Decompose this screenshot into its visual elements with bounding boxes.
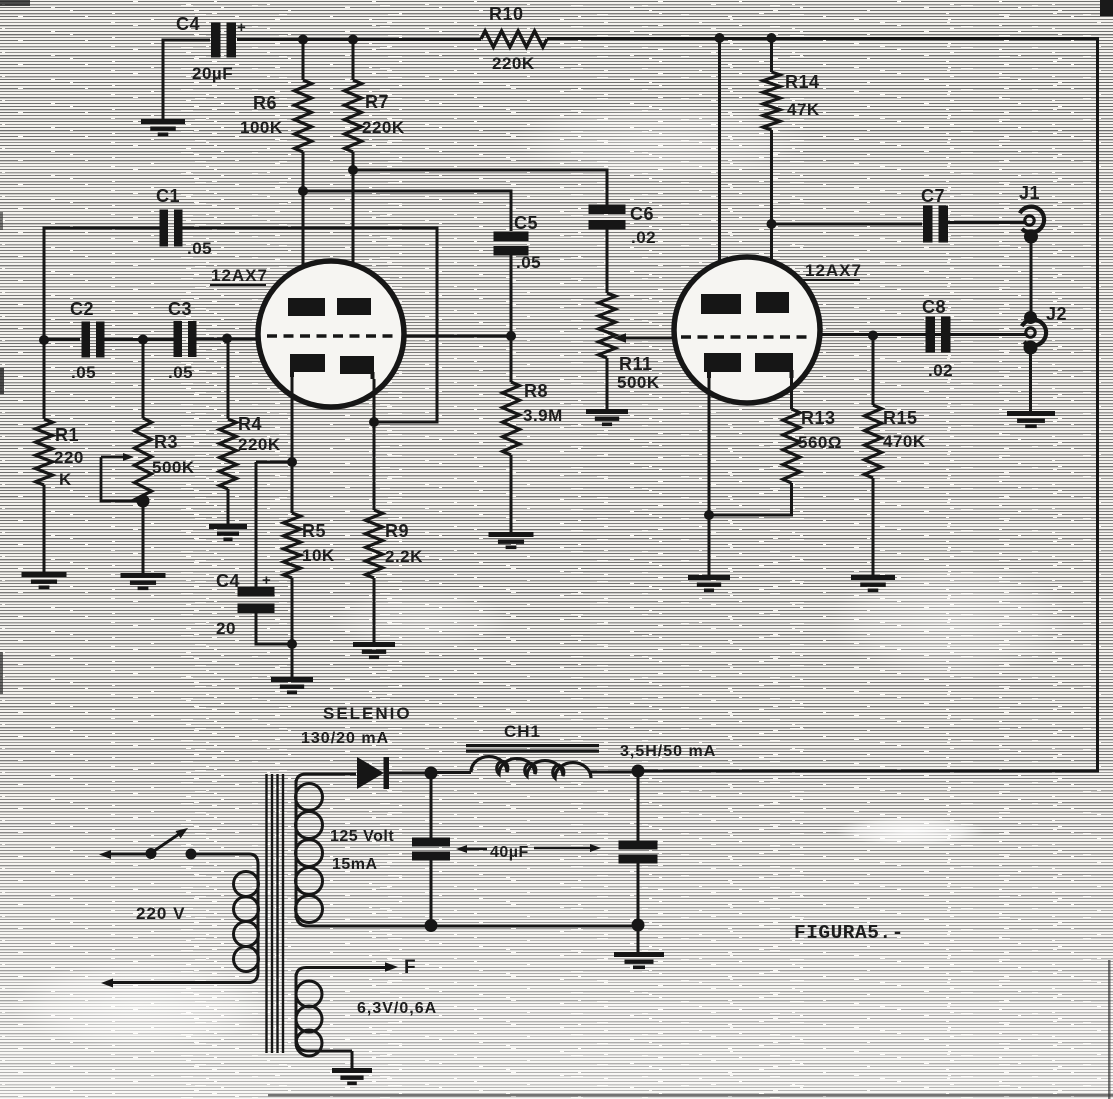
svg-text:220K: 220K: [362, 118, 405, 137]
wire: plate branch to C6: [353, 170, 607, 206]
ground (power supply): [614, 952, 664, 969]
svg-text:J2: J2: [1046, 304, 1067, 324]
ground (R5): [271, 677, 313, 694]
svg-text:470K: 470K: [883, 432, 926, 451]
svg-text:500K: 500K: [152, 458, 195, 477]
capacitor C5 .05: [494, 213, 542, 272]
wire: bus to V2 plate (pin 1): [718, 38, 721, 295]
label SELENIO 130/20mA: [301, 704, 412, 747]
svg-text:R9: R9: [385, 521, 409, 541]
wire: D1 to choke: [431, 771, 471, 774]
V1 cathode (triode B): [340, 356, 374, 379]
wire: J2 to ground: [1029, 351, 1032, 411]
svg-text:.05: .05: [168, 363, 193, 382]
V2 plate (triode B): [756, 292, 789, 313]
svg-text:6,3V/0,6A: 6,3V/0,6A: [357, 1000, 437, 1017]
svg-text:.05: .05: [187, 239, 212, 258]
svg-text:40µF: 40µF: [490, 844, 529, 861]
V2 grid (dashed): [681, 335, 813, 338]
transformer HV secondary 125V: [296, 774, 357, 926]
svg-text:100K: 100K: [240, 118, 283, 137]
svg-text:R8: R8: [524, 381, 548, 401]
svg-text:47K: 47K: [787, 100, 820, 119]
ground (R3): [121, 573, 166, 590]
svg-text:FIGURA5.-: FIGURA5.-: [794, 922, 904, 944]
label CH1: [504, 722, 541, 741]
wire: C10 to ground: [637, 925, 640, 953]
svg-text:.02: .02: [928, 361, 953, 380]
wire: C4 to ground: [163, 40, 210, 119]
svg-text:R11: R11: [619, 354, 653, 374]
transformer T1 core: [267, 774, 284, 1053]
svg-text:2.2K: 2.2K: [385, 547, 423, 566]
resistor R9 2.2K: [366, 510, 424, 642]
arrow: mains line 2: [101, 979, 113, 988]
ground (V2 cathode): [688, 575, 730, 592]
wire: V2 plate to C7: [772, 223, 923, 226]
svg-text:C2: C2: [70, 299, 94, 319]
node: bus/V2 plate junction: [715, 33, 725, 43]
switch S1 (mains): [99, 828, 197, 860]
wire: C4b bottom to R5 bottom: [256, 609, 292, 644]
wire: V1 grid B out to C5/R8 node: [404, 335, 513, 338]
ground (C4): [141, 119, 185, 136]
svg-text:C3: C3: [168, 299, 192, 319]
node: R6/C5 branch: [298, 186, 308, 196]
ground (filament): [332, 1068, 372, 1085]
node: bus/R6 junction: [298, 35, 308, 45]
resistor R1 220K: [36, 340, 84, 572]
svg-text:.05: .05: [516, 253, 541, 272]
ground (R11): [586, 409, 628, 426]
svg-text:500K: 500K: [617, 373, 660, 392]
resistor R14 47K: [763, 38, 820, 130]
svg-text:3.9M: 3.9M: [523, 406, 563, 425]
svg-text:SELENIO: SELENIO: [323, 704, 412, 723]
svg-text:R1: R1: [55, 425, 79, 445]
resistor R6 100K: [240, 39, 312, 152]
svg-text:R6: R6: [253, 93, 277, 113]
svg-text:C8: C8: [922, 297, 946, 317]
label 125Volt 15mA: [330, 828, 394, 873]
wire: filament to ground: [351, 1051, 354, 1068]
node: C10 bottom junction: [632, 919, 645, 932]
svg-text:C1: C1: [156, 186, 180, 206]
wire: C4b top riser: [256, 462, 292, 588]
resistor R7 220K: [345, 39, 405, 152]
V1 cathode (triode A): [290, 354, 325, 377]
V1 grid (dashed): [267, 334, 397, 337]
transformer primary winding: [108, 854, 259, 983]
svg-text:R14: R14: [785, 72, 820, 92]
resistor R13 560: [709, 378, 842, 515]
capacitor C9 40uF input filter: [412, 773, 450, 926]
caption FIGURA 5: [794, 922, 904, 944]
V1 plate (triode B): [337, 298, 371, 315]
wire: B+ top bus (left of R10): [237, 38, 481, 41]
wire: V2 out to C8: [819, 333, 1026, 336]
label 3,5H/50mA: [620, 743, 716, 760]
resistor R15 470K: [865, 336, 926, 576]
capacitor C7: [921, 186, 948, 243]
node: bus/R14 junction: [767, 33, 777, 43]
wire: plate branch to C5: [303, 191, 511, 231]
svg-text:+: +: [262, 572, 271, 589]
V1 plate (triode A): [288, 298, 325, 316]
svg-text:220: 220: [54, 448, 84, 467]
ground (J2): [1007, 411, 1055, 428]
node: C5/R8/grid junction: [506, 331, 516, 341]
capacitor C3 .05: [168, 299, 197, 382]
node: R5/C4b bottom junction: [287, 639, 297, 649]
wire: V1 cathode B down to R9: [373, 379, 376, 510]
svg-text:C4: C4: [216, 571, 240, 591]
ground (R8): [489, 532, 534, 549]
svg-text:125 Volt: 125 Volt: [330, 828, 394, 845]
wire: V2 cathode A to ground: [708, 378, 711, 575]
transformer filament winding 6.3V: [296, 968, 390, 1057]
node: R15 junction: [868, 331, 878, 341]
svg-text:12AX7: 12AX7: [805, 261, 862, 280]
svg-text:15mA: 15mA: [332, 856, 378, 873]
svg-text:3,5H/50 mA: 3,5H/50 mA: [620, 743, 716, 760]
wire: R7 to V1 plate (pin 6): [352, 152, 355, 299]
svg-text:C5: C5: [514, 213, 538, 233]
capacitor C2 .05 (input): [70, 299, 105, 382]
svg-text:.05: .05: [71, 363, 96, 382]
svg-text:R7: R7: [365, 92, 389, 112]
ground (R1): [22, 572, 67, 589]
wire: C1 right to V2 cathode node: [180, 228, 437, 422]
svg-text:+: +: [237, 19, 246, 36]
label 40uF with arrows: [456, 844, 601, 861]
svg-text:R5: R5: [302, 521, 326, 541]
wire: B+ top bus (right of R10) down right edge to power supply: [547, 39, 1098, 772]
node: choke out/C10 junction: [632, 765, 645, 778]
svg-text:R15: R15: [883, 408, 918, 428]
wiper arrow: V2 grid to R11: [613, 333, 673, 343]
svg-text:12AX7: 12AX7: [211, 266, 268, 285]
capacitor C4b 20uF cathode bypass: [216, 571, 275, 638]
capacitor C8 .02: [922, 297, 953, 380]
V2 cathode (triode B): [755, 353, 793, 378]
resistor R5 10K: [284, 513, 335, 677]
resistor R4 220K: [220, 339, 281, 525]
wire: input node to C2: [44, 338, 80, 341]
node: R3 wiper tie: [137, 495, 150, 508]
label 220V: [136, 904, 185, 923]
svg-text:220 V: 220 V: [136, 904, 185, 923]
resistor R11 500K volume pot: [599, 293, 660, 409]
node: cathode A / C4b junction: [287, 457, 297, 467]
wire: C3 to V1 grid: [194, 338, 263, 341]
svg-text:C4: C4: [176, 14, 200, 34]
node: input node (C1/C2/R1): [39, 335, 49, 345]
jack J2 (output): [1022, 304, 1067, 355]
svg-text:220K: 220K: [238, 435, 281, 454]
wire: V1 cathode A down: [291, 377, 294, 513]
wire: C7 to J1: [947, 221, 1026, 224]
tube V1 12AX7 envelope: [210, 261, 404, 407]
svg-text:R3: R3: [154, 432, 178, 452]
wire: C2 to C3: [102, 338, 176, 341]
svg-text:F: F: [404, 957, 416, 978]
svg-text:C7: C7: [921, 186, 945, 206]
wire: R14 to V2 plate (pin 6): [770, 130, 773, 293]
choke CH1: [466, 744, 638, 778]
resistor R8 3.9M: [503, 336, 563, 532]
svg-text:R13: R13: [801, 408, 836, 428]
jack J1 (output): [1019, 183, 1044, 244]
ground (R4): [209, 524, 247, 541]
svg-text:R4: R4: [238, 414, 262, 434]
node: R14/C7 junction: [767, 219, 777, 229]
node: C2/C3/R3 junction: [138, 335, 148, 345]
wiper arm of R3: [101, 453, 143, 501]
ground (R9): [353, 642, 395, 659]
wire: J1 to J2: [1030, 240, 1033, 315]
V2 plate (triode A): [701, 294, 741, 314]
svg-text:20µF: 20µF: [192, 64, 233, 83]
node: C9 bottom junction: [425, 919, 438, 932]
resistor R10 220K: [481, 4, 547, 73]
node: bus/R7 junction: [348, 35, 358, 45]
svg-text:220K: 220K: [492, 54, 535, 73]
rectifier D1 selenium: [357, 757, 431, 789]
svg-text:20: 20: [216, 619, 236, 638]
capacitor C4 (20uF decoupling): [176, 14, 246, 83]
V2 cathode (triode A): [704, 353, 741, 378]
wire: C6 to R11: [606, 227, 609, 293]
wire: C5 to grid node: [510, 253, 513, 338]
node: C3/R4 junction: [222, 334, 232, 344]
svg-text:J1: J1: [1019, 183, 1040, 203]
svg-text:R10: R10: [489, 4, 524, 24]
wire: R6 to V1 plate (pin 1): [302, 152, 305, 299]
svg-text:130/20 mA: 130/20 mA: [301, 730, 389, 747]
label 6,3V/0,6A: [357, 1000, 437, 1017]
svg-text:C6: C6: [630, 204, 654, 224]
capacitor C6 .02: [589, 204, 657, 247]
svg-text:.02: .02: [631, 228, 656, 247]
ground (R15): [851, 575, 895, 592]
capacitor C10 40uF output filter: [619, 771, 658, 926]
wire: B+ line choke to right edge: [638, 770, 1099, 773]
resistor R3 500K potentiometer: [135, 339, 195, 573]
wire: C1 left to input node: [44, 228, 162, 340]
wire: HV return bus: [305, 925, 638, 928]
svg-text:CH1: CH1: [504, 722, 541, 741]
arrow F: filament feed: [385, 957, 416, 978]
tube V2 12AX7 envelope: [674, 257, 862, 403]
node: R7/C6 branch: [348, 165, 358, 175]
node: D1/C9 junction: [425, 767, 438, 780]
capacitor C1 .05 (feedback): [156, 186, 212, 258]
svg-text:560Ω: 560Ω: [798, 433, 842, 452]
svg-text:K: K: [59, 470, 72, 489]
node: cathode/R13 junction: [704, 510, 714, 520]
node: cathode B / C1 feedback junction: [369, 417, 379, 427]
svg-text:10K: 10K: [302, 546, 335, 565]
